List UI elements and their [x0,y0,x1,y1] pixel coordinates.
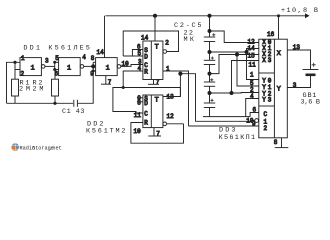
label +10,8 V [281,7,318,15]
pin 9 label DD1.3 [90,70,94,77]
watermark text Storage [32,145,54,151]
svg-text:1: 1 [31,64,35,72]
svg-text:C1 43: C1 43 [62,108,85,116]
wire DD2.1 R net left drop [113,88,143,114]
svg-text:7: 7 [108,79,112,86]
pin 3 label DD1.1 [45,58,49,65]
wire chain rail to C2 [209,16,211,37]
node rail junction at capacitor chain [208,14,212,18]
wire C2 to C3 [209,42,211,61]
pin 14 label DD3 [248,45,256,52]
watermark text Radio [20,145,36,151]
wire DD2.2 S stub [137,97,143,99]
pin 6 label DD2.1 [137,44,141,51]
svg-text:D: D [144,53,148,60]
node R2 bottom junction [53,102,56,105]
node tap3 branch junction [230,91,234,95]
svg-text:1: 1 [250,72,254,79]
svg-text:7: 7 [156,130,160,137]
pin 2 label DD1.1 [21,70,25,77]
value label 22 [184,30,194,38]
node tap2 branch junction [235,53,239,57]
svg-text:6: 6 [253,107,257,114]
label DD3 [219,127,236,135]
watermark text .net [49,145,61,151]
wire C5 to tap4 [209,108,211,117]
value label R2 2M [33,86,44,94]
svg-text:6: 6 [55,70,59,77]
capacitor C2 [204,33,216,41]
pin 1 label DD3 [250,72,254,79]
label DD1 K561LE5 [23,45,90,53]
wire DD1.3 out to DD2.1 C [121,65,143,67]
node DD1.1 output bubble [41,65,45,69]
pin 1 label DD2.1 [166,65,170,72]
svg-text:8: 8 [137,100,141,107]
ground DD2.2 pin 7 [148,128,161,138]
wire DD2.2 R stub loop [131,123,184,144]
wire R net to Q1 column [123,88,180,97]
wire DD1.2 out to DD1.3 in [84,65,93,67]
wire Y output to battery [287,76,310,88]
wire tap2 to Y1 [237,55,259,87]
svg-text:1: 1 [106,64,110,72]
pin 11 label DD2.2 [134,112,142,119]
wire DD2.1 S stub [132,50,143,57]
label DD2 [87,120,104,128]
svg-text:К561КП1: К561КП1 [219,134,256,142]
capacitor C5 [204,99,215,108]
wire DD2.1 /Q feedback to D [123,31,178,56]
watermark RadioStorage.net logo [11,143,19,151]
svg-text:.net: .net [49,145,61,151]
wire DD2.1 D stub [123,55,143,57]
pin 3 label DD3 [293,82,297,89]
svg-text:8: 8 [274,139,278,146]
node R net junction [122,86,125,89]
svg-text:3: 3 [45,58,49,65]
pin 14 label DD2 [141,35,149,42]
ground DD1 pin 7 [101,76,112,86]
capacitor C1 [74,100,78,107]
pin 8 label DD2.2 [137,100,141,107]
node DD1.2 input junction upper [53,61,56,64]
svg-text:Y: Y [277,86,281,94]
node DD2.1 pin 2 bubble [163,50,167,54]
svg-text:10: 10 [134,128,142,135]
wire DD2.1 R stub [123,71,143,88]
node DD3 pin 10 bubble [255,119,259,123]
node DD2.1 pin1 wire junction [178,72,182,76]
pin 12 label DD3 [248,39,256,46]
wire R1 bottom lead [14,96,16,103]
svg-text:14: 14 [141,35,149,42]
node tap1 junction [208,50,212,54]
label GB1 [303,92,317,100]
svg-text:C: C [264,111,268,118]
svg-text:14: 14 [248,45,256,52]
svg-text:13: 13 [167,94,175,101]
value label C1 43 [62,108,85,116]
wire R1 top lead [14,62,16,79]
op-amp gate DD1.1 [20,58,41,76]
svg-text:4: 4 [250,93,254,100]
wire R2 bottom lead [54,96,56,103]
wire gate1 pin2 stub [15,69,20,71]
wire Q1 to DD3 address 2 [189,125,259,127]
wire DD2.2 Q2 to address net [163,74,255,122]
wire tap2 to X2 [210,55,259,74]
pin 14 label DD1 [97,49,105,56]
ground DD2.1 pin 7 [148,79,160,86]
value label MK [184,36,195,44]
pin 6 label DD3 [253,107,257,114]
pin 8 label DD3 [274,139,278,146]
pin 16 label DD3 [267,31,275,38]
pin 10 label DD3 [246,118,254,125]
op-amp gate DD1.2 [59,58,81,76]
ground DD3 pin 8 [275,138,289,148]
node tap1 branch junction [245,50,249,54]
svg-text:1: 1 [21,55,25,62]
pin 12 label DD2.2 [167,113,175,120]
pin 11 label DD3 [249,61,257,68]
svg-text:T: T [155,97,159,105]
capacitor C3 [204,57,215,65]
wire tap4 to C strobe [250,113,259,117]
svg-text:X3: X3 [262,57,271,64]
value label R1 2M [19,86,30,94]
flip-flop DD2.2 [143,95,163,128]
value label R1 [20,79,30,87]
value label R2 [33,79,43,87]
svg-text:15: 15 [248,53,256,60]
wire oscillator bottom feedback right segment [78,71,93,103]
value label 3,6 V [301,98,321,106]
wire DD1.3 input tie [93,62,95,71]
svg-text:12: 12 [167,113,175,120]
svg-text:C: C [144,111,148,118]
wire +10.8V power rail [106,15,279,17]
pin 2 label DD2.1 [165,39,169,46]
node tap0 junction [208,29,212,33]
wire DD2.1 Q output [163,71,189,126]
node DD1.2 input junction lower [53,68,56,71]
node rail junction at DD3 pin 16 [277,15,280,18]
svg-text:DD1 К561ЛЕ5: DD1 К561ЛЕ5 [23,45,90,53]
svg-text:2: 2 [165,39,169,46]
node tap2 junction [208,72,212,76]
IC DD3 K561KP1 multiplexer [259,39,288,138]
svg-text:D: D [144,100,148,107]
svg-text:2: 2 [21,70,25,77]
wire tap1 to Y0 [247,52,259,80]
svg-text:C2-C5: C2-C5 [174,22,202,30]
wire DD1.1 out to DD1.2 in [45,65,55,67]
wire tap4 to Y3 [246,99,259,117]
wire oscillator bottom feedback left segment [7,102,74,104]
node DD2.2 pin 12 bubble [163,122,167,126]
pin 2 label DD3 [250,87,254,94]
svg-text:T: T [155,44,159,52]
svg-text:X: X [277,50,281,58]
svg-text:R: R [144,120,148,127]
pin 10 label DD2.2 [134,128,142,135]
wire tap3 to Y2 [232,92,259,95]
pin 4 label DD3 [250,93,254,100]
wire tap3 to X3 [210,61,259,94]
wire C3 to C4 [209,65,211,83]
wire DD2.2 D stub [137,101,143,103]
svg-text:9: 9 [252,120,256,127]
wire tap4 bottom run [203,116,250,118]
svg-text:14: 14 [97,49,105,56]
pin 10 label DD1.3 [122,60,130,67]
op-amp gate DD1.3 [96,58,118,76]
resistor R1 [12,79,19,96]
svg-text:3,6 В: 3,6 В [301,98,321,106]
svg-text:11: 11 [134,112,142,119]
wire DD1 pin 14 riser [104,16,106,58]
label K561TM2 [86,127,126,135]
wire tap1 to X1 [210,49,259,53]
pin 5 label DD3 [250,80,254,87]
wire C4 to C5 [209,86,211,103]
pin 6 label DD1.2 [55,70,59,77]
svg-text:5: 5 [55,55,59,62]
pin 1 label DD1.1 [21,55,25,62]
svg-text:К561ТМ2: К561ТМ2 [86,127,126,135]
pin 15 label DD3 [248,53,256,60]
pin 13 label DD2.2 [167,94,175,101]
svg-text:8: 8 [91,55,95,62]
pin 8 label DD1.3 [91,55,95,62]
wire DD3 pin 16 riser [278,16,280,39]
node DD1.3 output bubble [117,65,121,69]
wire DD2.2 /Q to loop [167,123,184,125]
node DD1.2 output bubble [80,65,84,69]
svg-text:9: 9 [90,70,94,77]
wire X output to battery [287,50,310,70]
pin 4 label DD2.1 [138,65,142,72]
pin 13 label DD3 [293,44,301,51]
flip-flop DD2.1 [143,41,163,80]
label C2-C5 [174,22,202,30]
capacitor C4 [204,78,215,86]
wire DD1.2 input tie [55,62,59,69]
svg-text:R: R [144,68,148,75]
svg-text:4: 4 [82,54,86,61]
pin 5 label DD2.1 [138,50,142,57]
svg-text:7: 7 [156,79,160,86]
svg-text:2: 2 [264,125,268,132]
svg-text:11: 11 [249,61,257,68]
node rail junction at DD2 pin 14 [153,14,157,18]
wire oscillator input net left [7,62,21,103]
svg-text:Y3: Y3 [262,97,271,104]
svg-text:+10,8 В: +10,8 В [281,7,318,15]
node DD1.3 input junction [91,64,95,68]
wire R2 top lead [54,70,56,80]
svg-text:1: 1 [67,64,71,72]
node gate1 input junction [13,61,16,64]
battery GB1 [303,63,319,75]
pin 9 label DD3 [252,120,256,127]
node tap3 junction [208,91,212,95]
pin 5 label DD1.2 [55,55,59,62]
pin 4 label DD1.2 [82,54,86,61]
wire power rail arrow to +10,8 V [279,13,310,18]
pin 3 label DD2.1 [138,58,142,65]
resistor R2 [52,79,59,96]
svg-text:16: 16 [267,31,275,38]
wire tap0 to X0 [210,31,259,43]
pin 9 label DD2.2 [137,95,141,102]
node DD1.3 pin9 junction [92,70,95,73]
label K561KP1 [219,134,256,142]
wire DD2 pin 14 riser [154,16,156,41]
